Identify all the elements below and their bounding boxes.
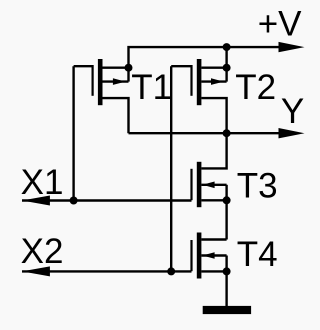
T4 bulk stub [201, 254, 226, 256]
wire T3 source to T4 drain [225, 200, 227, 239]
svg-text:X1: X1 [21, 163, 64, 202]
T2 source stub [201, 98, 226, 133]
wire Y output [129, 132, 282, 134]
T2 gate line [190, 65, 192, 96]
transistor T2 [171, 47, 226, 133]
svg-text:T4: T4 [237, 235, 278, 274]
node X2 junction dot [167, 267, 175, 275]
T2 gate lead [171, 65, 191, 67]
svg-text:Y: Y [281, 92, 304, 131]
wire T4 source to ground [225, 271, 227, 306]
T3 bulk stub [201, 184, 226, 186]
node T3 source dot [223, 196, 231, 204]
T1 bulk-to-drain wire [127, 68, 129, 82]
T1 channel bar [98, 59, 103, 105]
node +V arrow [279, 42, 305, 52]
wire T2 gate to X2 [170, 66, 172, 271]
T2 channel bar [197, 59, 202, 105]
node T2 drain dot [223, 64, 231, 72]
node X1 arrow [22, 196, 50, 206]
wire X2 input [22, 270, 192, 272]
T2 bulk arrow [211, 78, 224, 85]
node X2 arrow [22, 266, 50, 276]
T3 channel bar [197, 162, 202, 207]
T2 bulk stub [201, 80, 226, 82]
T4 channel bar [197, 233, 202, 279]
T3 gate line [190, 169, 192, 200]
transistor T3 [192, 133, 227, 207]
svg-text:T3: T3 [237, 167, 278, 206]
T1 bulk arrow [113, 78, 126, 85]
T4 bulk arrow [202, 252, 214, 259]
T1 gate lead [74, 65, 93, 67]
node X1 junction dot [70, 197, 78, 205]
transistor T4 [192, 233, 227, 279]
transistor T1 [74, 59, 129, 133]
T1 gate line [91, 65, 93, 96]
T4 source stub [201, 270, 226, 272]
T1 drain stub [103, 66, 129, 68]
T3 bulk-to-source wire [225, 185, 227, 201]
svg-text:T1: T1 [131, 68, 172, 107]
T1 bulk stub [103, 80, 129, 82]
node +V rail junction [223, 43, 231, 51]
svg-text:T2: T2 [235, 68, 276, 107]
T4 bulk-to-source wire [225, 256, 227, 272]
ground [203, 306, 251, 314]
node Y arrow [279, 128, 305, 138]
T2 drain stub [201, 47, 226, 68]
T4 drain stub [201, 238, 226, 240]
T3 bulk arrow [202, 182, 214, 189]
wire T1 gate to X1 [72, 66, 74, 200]
svg-text:+V: +V [258, 5, 302, 44]
wire X1 input [22, 199, 192, 201]
node T1 drain dot [125, 64, 133, 72]
svg-text:X2: X2 [21, 232, 64, 271]
T1 source stub [103, 98, 129, 133]
T3 source stub [201, 199, 226, 201]
wire +V rail [129, 47, 282, 68]
node Y junction dot [223, 129, 231, 137]
T4 gate line [190, 240, 192, 271]
T3 drain stub [201, 133, 226, 168]
T2 bulk-to-drain wire [225, 68, 227, 82]
node T4 source dot [223, 267, 231, 275]
